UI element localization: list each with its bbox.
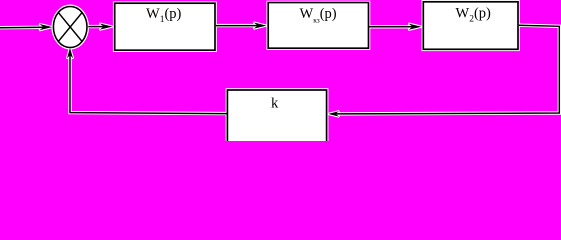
- svg-text:k: k: [271, 95, 279, 111]
